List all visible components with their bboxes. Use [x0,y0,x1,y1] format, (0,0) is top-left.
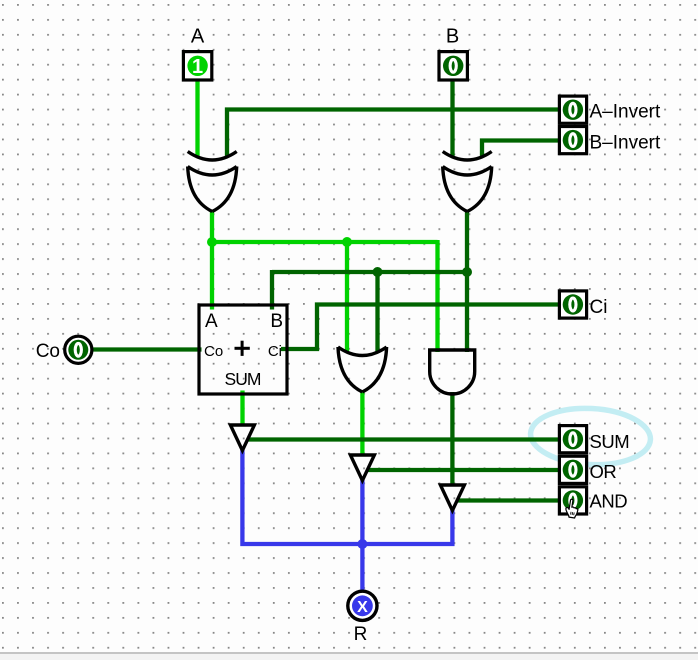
node junction floating at (362.4,544) [357,539,367,549]
bottom boundary line [0,652,698,654]
OR gate U4 [338,347,387,392]
node junction TRUE at (347,242) [342,237,352,247]
svg-text:SUM: SUM [590,431,630,452]
mouse cursor (hand) [565,499,580,519]
svg-text:Ci: Ci [590,297,608,318]
svg-text:Co: Co [204,343,223,360]
wire down to OR right input [375,272,379,353]
pin R (output, floating X) [348,591,377,645]
svg-text:X: X [357,599,368,616]
wire AND output to buffer3 input [450,392,454,486]
svg-text:B–Invert: B–Invert [590,133,661,154]
wire horizontal TRUE bus y=242 [212,240,438,244]
wire SUM enable: pin SUM to buffer1 enable [248,437,559,441]
wire down to AND left input [435,240,439,352]
wire XOR1 output down to adder A input [210,210,214,310]
svg-text:1: 1 [192,56,203,78]
wire A: pin A to XOR1 left input [195,80,199,157]
wire OR output to buffer2 input [360,391,364,456]
buffer Q1 (SUM select, controlled buffer) [230,425,254,451]
buffer Q3 (AND select, controlled buffer) [440,485,464,511]
svg-text:A–Invert: A–Invert [590,102,661,123]
XOR gate U1 (A xor A-Invert) [188,152,237,212]
wire buffer2 output (floating) [360,480,364,544]
wire B-Invert net: pin B-Invert to XOR2 right input [482,141,558,158]
pin A-Invert (input, value 0) [559,96,661,123]
buffer Q2 (OR select, controlled buffer) [350,455,374,481]
node junction FALSE at (467,272) [462,267,472,277]
wire to pin R [360,544,364,591]
svg-text:B: B [270,311,283,332]
pin B (input, value 0) [439,26,467,81]
pin SUM (input, value 0) [559,426,629,453]
wire Ci net: pin Ci to adder Ci input [281,305,558,350]
svg-text:A: A [191,26,205,48]
highlight ellipse around SUM pin [529,405,652,467]
wire A-Invert net: pin A-Invert to XOR1 right input [227,110,558,158]
wire horizontal FALSE bus y=272 [272,270,467,274]
wire B: pin B to XOR2 left input [450,80,454,157]
node junction FALSE at (377.5,272) [373,267,383,277]
wire buffer1 output (floating) [242,450,452,544]
pin B-Invert (input, value 0) [559,127,661,154]
wire adder SUM output to buffer1 input [240,391,244,427]
pin OR (input, value 0) [559,456,616,483]
wire AND enable: pin AND to buffer3 enable [457,498,558,502]
svg-text:AND: AND [590,491,628,512]
wire OR enable: pin OR to buffer2 enable [367,468,558,472]
pin AND (input, value 0) [559,487,627,514]
wire Co net: adder Co output to pin Co [93,347,202,351]
adder U3 [199,305,287,394]
pin Ci (input, value 0) [559,291,607,318]
wire down to OR left input [345,242,349,353]
svg-text:A: A [205,311,218,332]
svg-text:Ci: Ci [268,343,282,360]
svg-text:B: B [446,26,459,48]
wire down to adder B input [270,270,274,310]
AND gate U5 [430,350,475,394]
pin A (input, value 1) [183,26,211,81]
node junction TRUE at (212,242) [207,237,217,247]
XOR gate U2 (B xor B-Invert) [443,152,492,212]
svg-text:R: R [354,624,368,645]
svg-text:SUM: SUM [225,369,261,389]
wire XOR2 output down to AND right input [465,210,469,352]
pin Co (output, value 0) [36,336,92,363]
svg-text:OR: OR [590,461,617,482]
svg-text:Co: Co [36,341,60,362]
